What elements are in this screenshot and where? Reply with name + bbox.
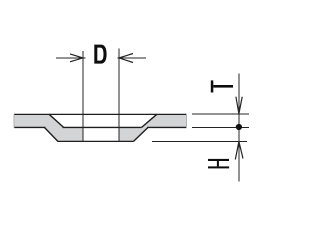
right top slope: [142, 114, 157, 127]
right bottom slope: [134, 128, 148, 142]
right rim bottom edge: [147, 126, 187, 128]
label T (rotated): [211, 80, 233, 92]
D right arrow line: [118, 57, 147, 59]
wheel section left half (gray fill): [14, 114, 83, 141]
H arrowhead (up): [235, 142, 243, 160]
left bottom slope: [45, 128, 58, 142]
D left arrow line: [56, 57, 85, 59]
right end cap: [186, 114, 188, 128]
T extension line A (top surface): [192, 113, 249, 115]
vertical dimension line: [238, 74, 240, 182]
H extension line C (bottom surface): [152, 140, 247, 142]
wheel top edge line: [14, 113, 187, 115]
D left arrowhead: [70, 54, 83, 62]
D right arrowhead: [119, 54, 133, 63]
T arrowhead (down): [236, 97, 242, 114]
center bottom edge: [58, 140, 134, 142]
left rim bottom edge: [14, 126, 46, 128]
label D: [94, 45, 106, 64]
left top slope: [49, 114, 64, 127]
shared dimension dot: [236, 124, 242, 130]
hole right wall / D right extension line: [118, 49, 120, 142]
left end cap: [13, 114, 15, 128]
extension line B (mid surface): [192, 126, 249, 128]
hole left wall / D left extension line: [82, 51, 84, 141]
center top edge: [63, 126, 142, 128]
wheel section right half (gray fill): [119, 114, 187, 141]
label H (rotated): [208, 159, 229, 169]
